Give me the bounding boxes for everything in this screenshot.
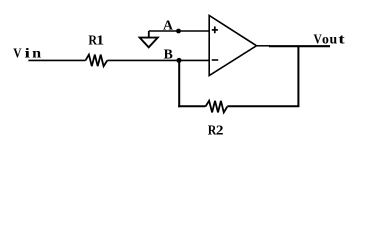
wire to Vout (heavier segment): [269, 45, 330, 47]
svg-text:B: B: [164, 46, 173, 61]
svg-text:i: i: [25, 45, 31, 60]
svg-text:1: 1: [96, 32, 104, 47]
wire Vin to R1: [28, 59, 85, 61]
node B: [177, 58, 182, 63]
wire ground to op-amp non-inverting input through node A: [149, 30, 209, 32]
svg-text:t: t: [338, 32, 345, 47]
label R1: [88, 32, 104, 47]
label Vout: [314, 32, 346, 47]
svg-text:n: n: [32, 45, 41, 60]
wire output down to feedback: [297, 46, 299, 106]
svg-text:u: u: [330, 32, 338, 47]
resistor R1: [86, 55, 108, 67]
label R2: [208, 122, 224, 137]
op-amp inverting input minus marking: [212, 59, 219, 61]
svg-text:V: V: [13, 45, 21, 60]
wire node B down to feedback: [178, 60, 180, 107]
node A: [176, 29, 181, 34]
svg-text:o: o: [322, 32, 329, 47]
svg-text:A: A: [163, 18, 173, 33]
wire feedback bottom right of R2: [227, 105, 299, 107]
svg-text:V: V: [314, 32, 322, 47]
wire feedback bottom left of R2: [178, 105, 205, 107]
resistor R2: [206, 101, 228, 113]
label Vin: [13, 45, 41, 60]
wire op-amp output to Vout: [257, 45, 271, 47]
ground: [140, 31, 158, 47]
wire R1 to op-amp inverting input through node B: [107, 59, 209, 61]
op-amp non-inverting input plus marking: [212, 26, 218, 33]
svg-text:2: 2: [216, 122, 224, 137]
op-amp U1: [209, 16, 256, 76]
